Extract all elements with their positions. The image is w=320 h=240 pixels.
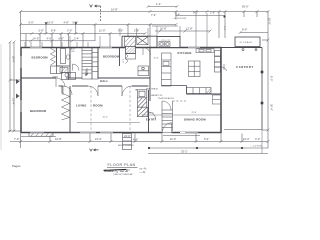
kitchen/entry wall	[136, 89, 138, 91]
entry/kitchen door arc	[149, 112, 156, 119]
wall stairs/bedroom2	[97, 48, 99, 79]
storage room	[235, 37, 260, 47]
basement stairs	[162, 101, 173, 131]
svg-text:9’-6”: 9’-6”	[118, 28, 123, 32]
kitchen corner box	[215, 51, 221, 57]
svg-text:ROOM: ROOM	[93, 103, 103, 107]
svg-text:8’-4”: 8’-4”	[51, 28, 56, 32]
svg-text:DINING ROOM: DINING ROOM	[184, 118, 206, 122]
junction dot on extension line	[223, 15, 225, 17]
rear steps hatched strip	[29, 133, 53, 136]
svg-text:10’-6”: 10’-6”	[149, 112, 155, 114]
wardrobe cabinets	[126, 54, 136, 60]
svg-text:FLOOR PLAN: FLOOR PLAN	[108, 163, 136, 167]
svg-text:5’-4”: 5’-4”	[204, 137, 209, 141]
stairs up run1	[82, 48, 92, 80]
bedroom2 closet doors	[126, 54, 129, 64]
svg-text:KITCHEN: KITCHEN	[178, 51, 192, 55]
svg-text:Pages: Pages	[12, 164, 21, 168]
bath tub	[61, 49, 66, 64]
carport bottom edge	[224, 129, 262, 131]
kitchen south counter	[187, 88, 212, 94]
svg-text:4’-0”: 4’-0”	[255, 137, 260, 141]
kitchen west wall bottom	[162, 85, 187, 87]
carport beam right	[261, 48, 263, 130]
svg-text:10’-8”: 10’-8”	[55, 137, 62, 141]
attic access X box	[137, 37, 148, 45]
dining terrace line	[163, 135, 200, 137]
svg-text:4’-8”: 4’-8”	[64, 21, 69, 25]
dressing door arc	[143, 48, 151, 56]
hall door arcs	[88, 86, 98, 96]
refrigerator	[137, 90, 147, 98]
svg-text:65’-0”: 65’-0”	[242, 5, 249, 9]
windows top wall	[30, 47, 200, 49]
extension ticks above wall	[25, 13, 207, 48]
top dimension tier C line	[21, 31, 211, 47]
kitchen dining wall	[187, 93, 222, 95]
svg-text:16’-8”: 16’-8”	[111, 7, 118, 11]
svg-text:7’-0”: 7’-0”	[14, 137, 19, 141]
svg-text:16’-0”: 16’-0”	[103, 117, 109, 119]
bedroom3 right wall	[69, 86, 71, 133]
svg-text:8’-0”: 8’-0”	[242, 27, 247, 31]
bottom dimension line 2 with dots	[149, 147, 269, 149]
utility bump-out wall	[157, 37, 180, 48]
dining planter box	[213, 95, 222, 104]
house outer wall	[21, 48, 221, 133]
entry left wall	[148, 90, 150, 133]
stairs arrow	[85, 70, 87, 76]
tier B down arrows	[45, 22, 48, 25]
hall bottom wall	[59, 85, 64, 87]
bottom tick marks line 1	[19, 140, 270, 143]
svg-text:CABINET SP.: CABINET SP.	[150, 94, 163, 97]
svg-text:8’-0”: 8’-0”	[269, 76, 273, 81]
section marker V bottom	[90, 149, 99, 151]
svg-text:UTILITY: UTILITY	[161, 40, 171, 42]
svg-text:16’-0”: 16’-0”	[243, 137, 250, 141]
svg-text:12’-0”: 12’-0”	[154, 57, 160, 59]
tick marks tier C	[30, 30, 211, 36]
svg-text:12’-8”: 12’-8”	[186, 26, 193, 30]
toilet bath1	[66, 55, 69, 59]
svg-text:BEDROOM: BEDROOM	[32, 55, 49, 59]
bath1 door arc	[73, 64, 80, 71]
svg-text:5’-4”: 5’-4”	[175, 12, 180, 16]
svg-text:LIN.: LIN.	[71, 51, 75, 53]
stairs arrow up	[86, 68, 88, 75]
linen closet boxes	[62, 73, 76, 80]
storage posts	[242, 49, 244, 51]
toilet bath2	[65, 73, 68, 77]
svg-text:CARPORT: CARPORT	[236, 65, 254, 69]
svg-text:— 42: — 42	[139, 171, 146, 174]
svg-text:9’-0”: 9’-0”	[29, 21, 34, 25]
svg-text:STORAGE: STORAGE	[240, 41, 253, 44]
svg-text:14’-0”: 14’-0”	[170, 137, 177, 141]
svg-text:1’-4”: 1’-4”	[156, 2, 161, 6]
wall bedroom2 east	[119, 48, 121, 67]
kitchen sink counter top wall	[196, 49, 214, 53]
wall bedroom2/kitchen	[149, 48, 151, 102]
scan edge artifact left	[0, 44, 2, 150]
svg-text:LIVING: LIVING	[76, 103, 87, 107]
range cabinet hatched	[137, 98, 147, 107]
svg-text:7’-4”: 7’-4”	[151, 13, 156, 17]
wall bath/stairs	[69, 48, 71, 79]
svg-text:30’-4”: 30’-4”	[270, 104, 274, 111]
right dimension line	[262, 12, 268, 149]
svg-text:3’-4”: 3’-4”	[74, 36, 79, 40]
svg-text:PLASTER ARCH: PLASTER ARCH	[158, 97, 174, 100]
svg-text:REF. SPACE: REF. SPACE	[146, 87, 159, 90]
svg-text:4’-0”: 4’-0”	[121, 59, 123, 63]
arch dashes	[173, 100, 187, 102]
front stoop	[123, 134, 132, 150]
svg-text:BEDROOM: BEDROOM	[103, 55, 120, 59]
linen dresser boxes	[51, 66, 63, 74]
svg-text:5’-0”: 5’-0”	[193, 11, 198, 15]
svg-text:14’-0”: 14’-0”	[33, 36, 40, 40]
basement stairs door arc	[162, 101, 171, 110]
closet bump-out top wall	[122, 36, 157, 47]
kitchen island table	[189, 61, 201, 77]
svg-text:2’-8”: 2’-8”	[210, 11, 215, 15]
svg-text:33’-2”: 33’-2”	[181, 149, 188, 153]
left dimension lines	[8, 42, 21, 131]
water heater closet	[215, 57, 221, 73]
svg-text:ENTRY: ENTRY	[146, 118, 157, 122]
bedroom3 closet wall	[61, 86, 63, 93]
svg-text:4’-0”: 4’-0”	[133, 138, 138, 142]
tick marks tier A	[19, 10, 270, 13]
kitchen counter column	[162, 53, 172, 86]
windows left wall	[20, 56, 22, 112]
svg-text:BEDROOM: BEDROOM	[30, 109, 47, 113]
svg-text:5’-8”: 5’-8”	[39, 28, 44, 32]
bottom dimension line 1	[10, 134, 268, 149]
bedroom1 closet bifold zigzag	[51, 49, 56, 66]
bedroom1 door arc	[56, 78, 65, 87]
svg-text:6’-0”: 6’-0”	[59, 36, 64, 40]
svg-text:3’-0”: 3’-0”	[67, 28, 72, 32]
section marker V top	[90, 5, 101, 23]
dashed beam line living 2	[129, 86, 131, 133]
bedroom2 bottom wall	[98, 77, 150, 79]
bath2 vanity hatched	[60, 68, 68, 73]
top dimension tier B line	[21, 25, 177, 48]
svg-text:11’-0”: 11’-0”	[99, 28, 106, 32]
carport posts	[261, 71, 264, 74]
bedroom2 closet hatched	[126, 47, 136, 54]
chimney closet hatched upper	[125, 37, 136, 48]
svg-text:21’-4”: 21’-4”	[12, 98, 16, 105]
bath divider wall	[57, 65, 71, 67]
svg-text:4’-0”: 4’-0”	[223, 26, 225, 30]
oven cabinet hatched	[137, 107, 148, 117]
windows bottom wall	[30, 132, 198, 134]
rear patio edge line	[21, 135, 56, 137]
bedroom3 door arc	[63, 86, 72, 95]
carport door arc	[222, 64, 227, 71]
svg-text:10’-0”: 10’-0”	[47, 21, 54, 25]
entry dining interior dim line	[142, 114, 222, 116]
svg-text:4’-6”: 4’-6”	[47, 36, 52, 40]
stairs run2	[92, 48, 98, 80]
left tick marks	[9, 41, 16, 133]
svg-text:21’-4”: 21’-4”	[95, 137, 102, 141]
carport top edge	[221, 47, 262, 49]
bedroom3 closet bifold zigzag	[62, 93, 70, 120]
svg-text:28’-0”: 28’-0”	[12, 56, 16, 63]
living interior dim line	[77, 121, 140, 123]
dashed beam line living	[90, 86, 92, 133]
svg-text:HALL: HALL	[100, 79, 108, 83]
door swing arrow marks left	[16, 79, 20, 84]
bedroom1 bottom wall	[21, 77, 56, 79]
front door arc	[163, 123, 172, 132]
svg-text:22’-0”: 22’-0”	[192, 112, 198, 114]
tick marks tier B	[19, 23, 178, 26]
svg-text:← 1’-0 ROW: ← 1’-0 ROW	[250, 146, 262, 148]
bedroom1 closet wall	[56, 48, 58, 67]
utility appliances	[159, 42, 170, 47]
right tick marks	[267, 39, 270, 132]
top dimension tier A (overall 65'-0")	[21, 12, 269, 48]
front door opening	[163, 132, 172, 134]
svg-text:BATH: BATH	[70, 47, 76, 50]
svg-text:— W. FLR DRS: — W. FLR DRS	[172, 18, 187, 20]
svg-text:DWG 56-T3 HB PLAN: DWG 56-T3 HB PLAN	[114, 173, 133, 176]
short tier over kitchen	[152, 25, 178, 27]
dressing vanity boxes	[138, 66, 149, 76]
